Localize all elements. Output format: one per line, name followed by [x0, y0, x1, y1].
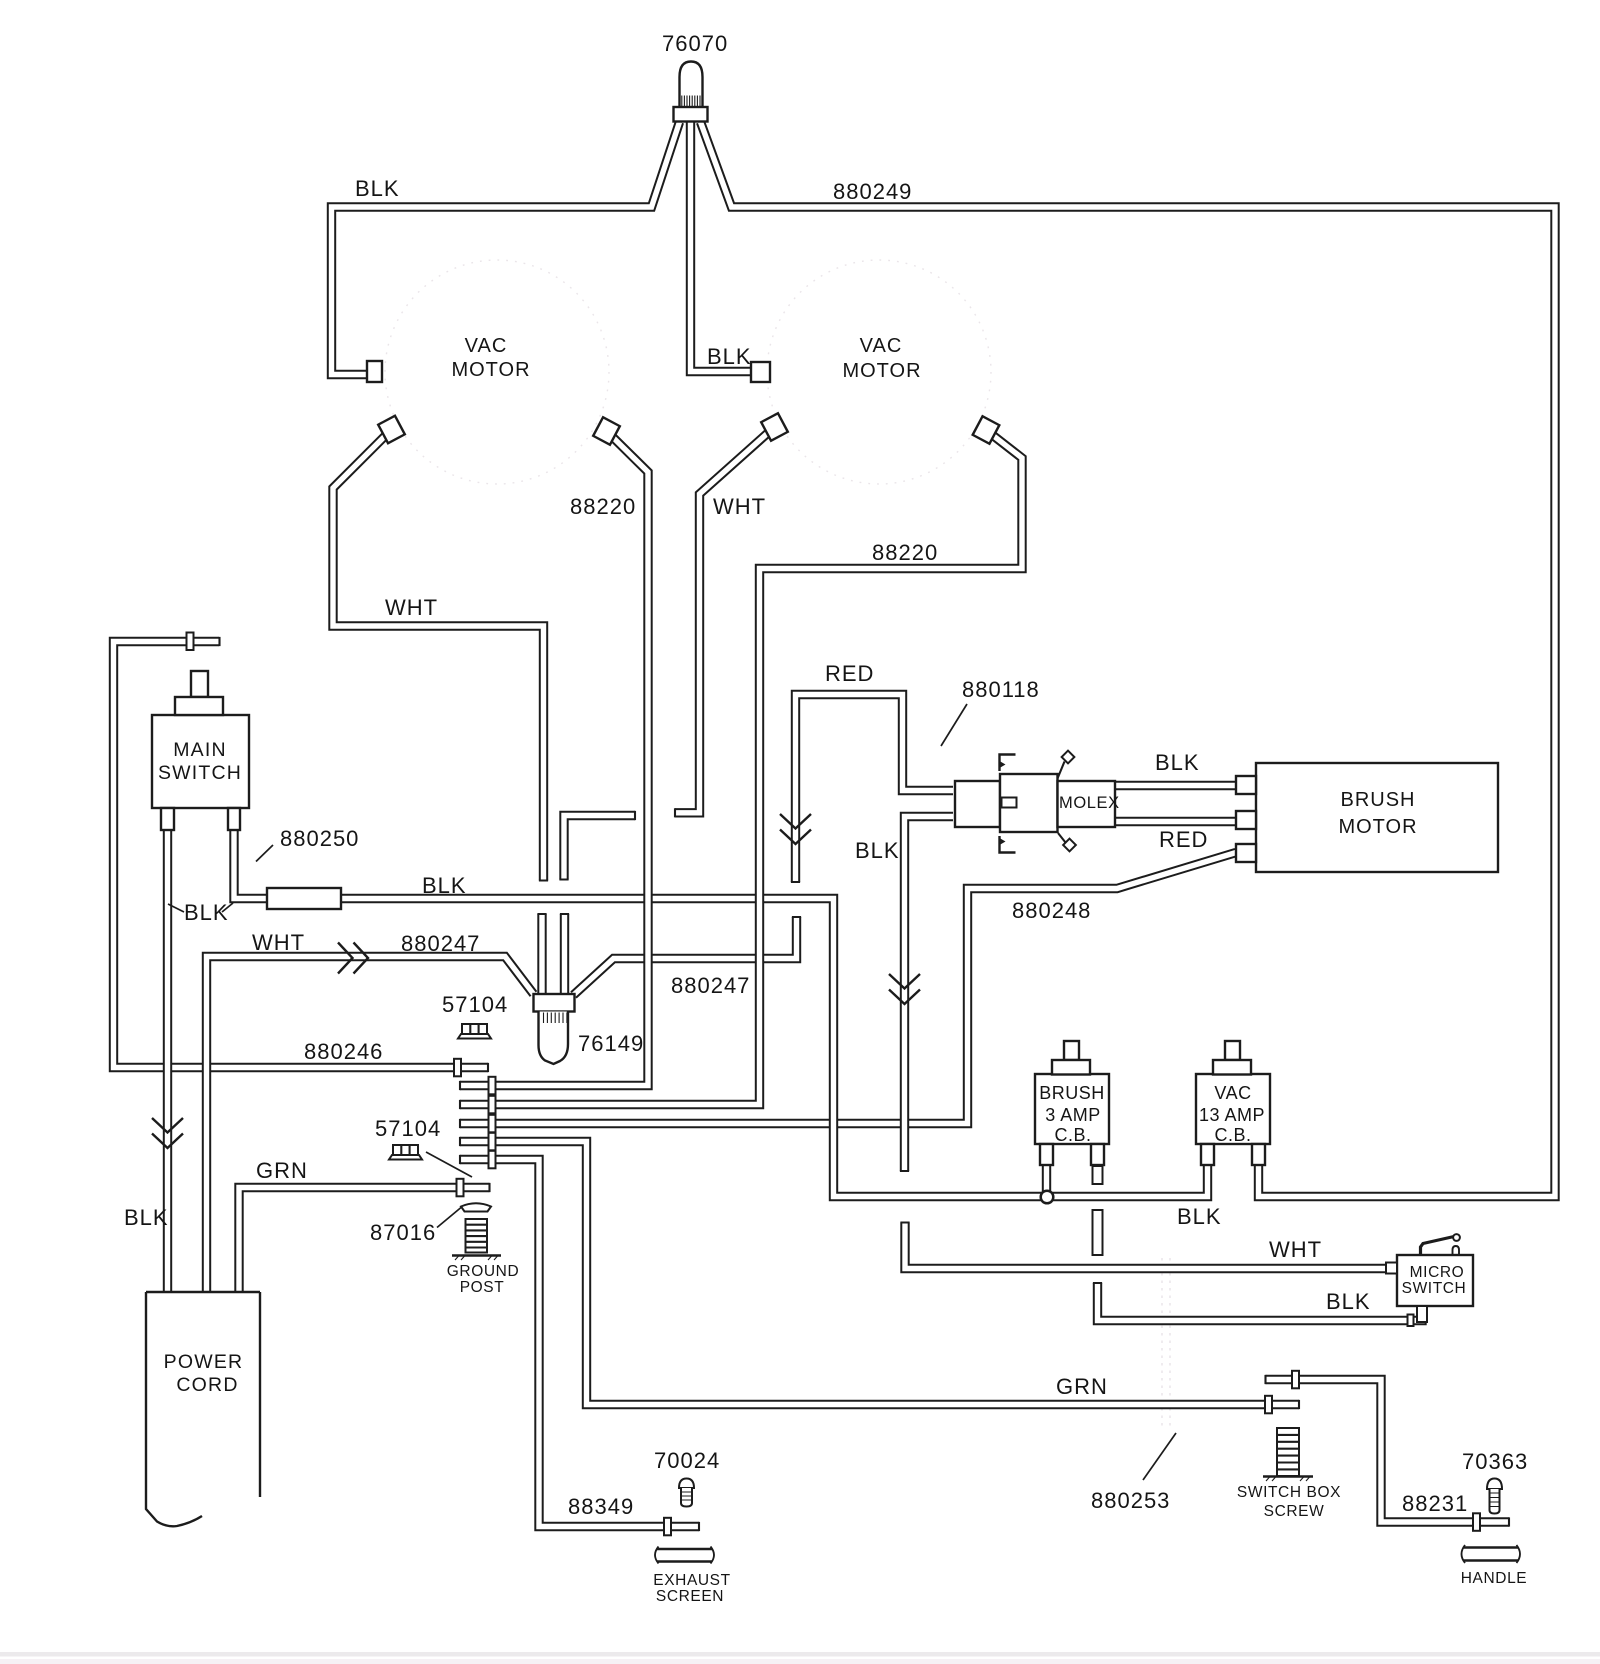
junction dot at brush breaker — [1041, 1191, 1054, 1204]
molex left block — [955, 781, 1000, 827]
molex top clip — [1000, 755, 1016, 772]
svg-text:MICRO: MICRO — [1410, 1264, 1465, 1281]
micro switch box — [1397, 1255, 1473, 1306]
wire 880247 right of lamp socket — [574, 917, 797, 995]
wire 88220 right motor lower-right lead to row2 — [460, 430, 1022, 1105]
connector tick 88231 lower — [1473, 1513, 1480, 1531]
brush breaker button — [1064, 1041, 1079, 1060]
svg-text:BLK: BLK — [184, 900, 229, 925]
wire RED from molex with arrow stub — [796, 695, 954, 883]
lamp 76070 bulb — [680, 62, 703, 109]
wire brush breaker left terminal to junction — [1042, 1164, 1051, 1197]
nut 57104 upper — [458, 1024, 491, 1039]
screw 70024 — [679, 1479, 694, 1507]
vac motor right dashed outline — [767, 260, 991, 484]
chevron down on BLK molex stub — [889, 974, 920, 1004]
connector tick 88231 upper — [1292, 1371, 1299, 1389]
chevron down on BLK power cord wire — [152, 1118, 183, 1148]
svg-text:SWITCH BOX: SWITCH BOX — [1237, 1484, 1341, 1501]
terminal square left motor lower-right — [593, 417, 620, 444]
svg-text:BRUSH: BRUSH — [1039, 1083, 1105, 1103]
svg-text:70024: 70024 — [654, 1448, 720, 1473]
svg-text:VAC: VAC — [1214, 1083, 1251, 1103]
brush breaker right stub upper — [1093, 1166, 1103, 1184]
wire 88220 left motor lower-right lead to row1 — [460, 431, 648, 1086]
lamp 76070 filament fringe — [682, 96, 700, 108]
brush motor tab 3 — [1236, 844, 1256, 862]
wire lamp center lead to right motor — [691, 122, 752, 372]
svg-text:WHT: WHT — [385, 595, 438, 620]
svg-text:MAIN: MAIN — [173, 739, 227, 761]
vac breaker terminal left — [1201, 1144, 1214, 1165]
wire BLK inline connector to breaker bus — [340, 899, 1208, 1197]
terminal left motor upper-left — [367, 361, 382, 382]
svg-text:BLK: BLK — [1326, 1289, 1371, 1314]
svg-text:88220: 88220 — [570, 494, 636, 519]
svg-text:SWITCH: SWITCH — [158, 762, 242, 784]
svg-text:57104: 57104 — [375, 1116, 441, 1141]
svg-text:WHT: WHT — [713, 494, 766, 519]
svg-text:BLK: BLK — [1155, 750, 1200, 775]
inline connector 880250 on BLK wire — [267, 888, 341, 909]
brush motor tab 1 — [1236, 776, 1256, 794]
svg-text:BLK: BLK — [855, 838, 900, 863]
svg-text:HANDLE: HANDLE — [1461, 1570, 1527, 1587]
connector tick GRN handle lug — [1265, 1396, 1272, 1414]
svg-text:BRUSH: BRUSH — [1340, 789, 1415, 811]
brush breaker terminal right — [1091, 1144, 1104, 1165]
svg-text:SCREEN: SCREEN — [656, 1588, 724, 1605]
bottom scan band — [0, 1652, 1600, 1657]
leader 87016 — [437, 1208, 461, 1228]
svg-text:880247: 880247 — [401, 931, 480, 956]
wire row3 880248 to brush motor — [460, 853, 1236, 1124]
brush motor box — [1256, 763, 1498, 872]
leader 880118 — [941, 704, 967, 746]
vac circuit breaker box — [1196, 1074, 1270, 1144]
svg-text:GROUND: GROUND — [447, 1263, 520, 1280]
wire lamp right lead 880249 to vac breaker — [701, 122, 1556, 1197]
svg-text:SWITCH: SWITCH — [1402, 1280, 1467, 1297]
svg-text:MOTOR: MOTOR — [1338, 816, 1417, 838]
svg-text:BLK: BLK — [707, 344, 752, 369]
vac breaker terminal right — [1252, 1144, 1265, 1165]
connector tick row1 — [489, 1077, 496, 1095]
molex key bottom — [1058, 833, 1066, 843]
power cord body — [146, 1292, 260, 1526]
terminal square left motor lower-left — [378, 416, 405, 443]
exhaust screen — [655, 1547, 714, 1564]
svg-text:BLK: BLK — [1177, 1204, 1222, 1229]
leader BLK main switch right — [222, 903, 233, 912]
connector tick 88349 lug — [664, 1518, 671, 1536]
svg-text:57104: 57104 — [442, 992, 508, 1017]
ground post 87016 threaded shaft — [452, 1219, 501, 1260]
molex right section — [1058, 781, 1116, 827]
leader 57104 lower — [426, 1152, 472, 1177]
micro switch terminal left — [1386, 1263, 1397, 1274]
main switch box — [152, 715, 249, 808]
svg-text:MOTOR: MOTOR — [451, 359, 530, 381]
svg-text:GRN: GRN — [256, 1158, 308, 1183]
CAPS — [220, 637, 1510, 1531]
wire BLK molex to brush motor — [1115, 781, 1236, 790]
chevron right on 880247 — [338, 943, 368, 974]
svg-text:SCREW: SCREW — [1264, 1503, 1325, 1520]
lamp 76149 bulb — [539, 1012, 569, 1065]
switch box screw — [1263, 1428, 1313, 1481]
main switch actuator — [191, 671, 208, 697]
connector tick GRN — [457, 1179, 464, 1197]
svg-text:88349: 88349 — [568, 1494, 634, 1519]
brush motor tab 2 — [1236, 811, 1256, 829]
svg-text:88220: 88220 — [872, 540, 938, 565]
wire WHT to micro switch — [905, 1223, 1386, 1269]
wire row4 GRN long to handle connector — [460, 1142, 1299, 1405]
svg-text:CORD: CORD — [176, 1374, 238, 1396]
svg-text:EXHAUST: EXHAUST — [653, 1572, 730, 1589]
svg-text:13 AMP: 13 AMP — [1199, 1105, 1265, 1125]
micro switch terminal bottom — [1417, 1306, 1427, 1322]
connector tick row3 — [489, 1115, 496, 1133]
connector tick 880246 — [454, 1059, 461, 1077]
svg-text:MOTOR: MOTOR — [842, 360, 921, 382]
wire lamp socket right prong — [560, 914, 569, 994]
connector tick row2 — [489, 1096, 496, 1114]
svg-text:880253: 880253 — [1091, 1488, 1170, 1513]
lamp socket 76149 fringe — [544, 1013, 567, 1024]
svg-text:WHT: WHT — [252, 930, 305, 955]
wire row5 88349 to exhaust screen lug — [460, 1160, 699, 1527]
wire BLK from molex with arrow stub — [905, 817, 954, 1172]
svg-text:POST: POST — [460, 1279, 505, 1296]
wire main switch right terminal to inline connector — [234, 826, 268, 899]
wire WHT right motor lower-left lead with hook — [675, 427, 775, 813]
svg-text:MOLEX: MOLEX — [1059, 794, 1120, 812]
lamp socket 76149 body — [534, 994, 575, 1012]
handle — [1462, 1545, 1521, 1563]
svg-text:RED: RED — [1159, 827, 1208, 852]
screw 70363 — [1487, 1479, 1502, 1514]
wire 88231 handle ground — [1266, 1380, 1510, 1523]
brush breaker terminal left — [1040, 1144, 1053, 1165]
svg-text:BLK: BLK — [124, 1205, 169, 1230]
connector tick BLK micro — [1408, 1315, 1414, 1327]
brush breaker right stub lower — [1093, 1210, 1103, 1255]
svg-text:76070: 76070 — [662, 31, 728, 56]
micro switch lever — [1421, 1237, 1455, 1257]
svg-text:76149: 76149 — [578, 1031, 644, 1056]
molex slot — [1002, 798, 1017, 808]
lamp 76070 base — [674, 107, 708, 122]
leader 880250 — [256, 845, 273, 862]
connector tick row5 — [489, 1151, 496, 1169]
svg-text:BLK: BLK — [422, 873, 467, 898]
micro switch plunger — [1453, 1246, 1460, 1255]
wire lamp left lead BLK to left motor — [332, 122, 680, 375]
svg-text:WHT: WHT — [1269, 1237, 1322, 1262]
connector tick top-left lug — [187, 633, 194, 651]
molex key top — [1058, 762, 1065, 779]
leader 880253 — [1143, 1433, 1176, 1480]
molex bottom clip — [1000, 836, 1016, 853]
vac breaker button — [1225, 1041, 1240, 1060]
svg-text:880246: 880246 — [304, 1039, 383, 1064]
connector tick row4 — [489, 1133, 496, 1151]
svg-text:880250: 880250 — [280, 826, 359, 851]
ghost dotted line near 880253 — [1162, 1258, 1170, 1428]
svg-text:880247: 880247 — [671, 973, 750, 998]
svg-text:GRN: GRN — [1056, 1374, 1108, 1399]
wire BLK main switch left to power cord — [163, 826, 172, 1292]
svg-text:VAC: VAC — [860, 335, 903, 357]
svg-text:BLK: BLK — [355, 176, 400, 201]
svg-text:3 AMP: 3 AMP — [1045, 1105, 1101, 1125]
wire 880246 (main switch top lug to connector stack) — [114, 642, 489, 1068]
svg-text:70363: 70363 — [1462, 1449, 1528, 1474]
svg-text:RED: RED — [825, 661, 874, 686]
svg-text:POWER: POWER — [164, 1351, 244, 1373]
svg-text:C.B.: C.B. — [1214, 1125, 1251, 1145]
svg-text:880248: 880248 — [1012, 898, 1091, 923]
leader BLK main switch left — [168, 904, 184, 912]
wire WHT 880247 power cord to lamp socket — [207, 957, 534, 1293]
svg-text:880249: 880249 — [833, 179, 912, 204]
brush circuit breaker box — [1035, 1074, 1109, 1144]
svg-text:87016: 87016 — [370, 1220, 436, 1245]
svg-text:880118: 880118 — [962, 677, 1040, 702]
wire hook above lamp socket right prong — [564, 816, 635, 880]
wire RED molex to brush motor — [1115, 817, 1236, 826]
wire WHT left motor lower-left lead — [333, 430, 544, 881]
svg-text:C.B.: C.B. — [1054, 1125, 1091, 1145]
vac motor left dashed outline — [385, 260, 609, 484]
molex body — [1000, 774, 1058, 832]
svg-text:88231: 88231 — [1402, 1491, 1468, 1516]
nut 57104 lower — [389, 1145, 422, 1160]
svg-text:VAC: VAC — [465, 335, 508, 357]
terminal square right motor lower-left — [761, 413, 788, 440]
wire lamp socket left prong — [537, 914, 546, 994]
main switch terminal left — [161, 808, 174, 830]
washer 87016 — [461, 1203, 491, 1211]
terminal right motor upper-left — [751, 362, 770, 382]
terminal square right motor lower-right — [973, 416, 1000, 443]
chevron down on RED molex stub — [780, 814, 811, 844]
wire GRN power cord to lug — [239, 1188, 490, 1293]
wire BLK to micro switch — [1098, 1283, 1423, 1321]
main switch terminal right — [228, 808, 240, 830]
